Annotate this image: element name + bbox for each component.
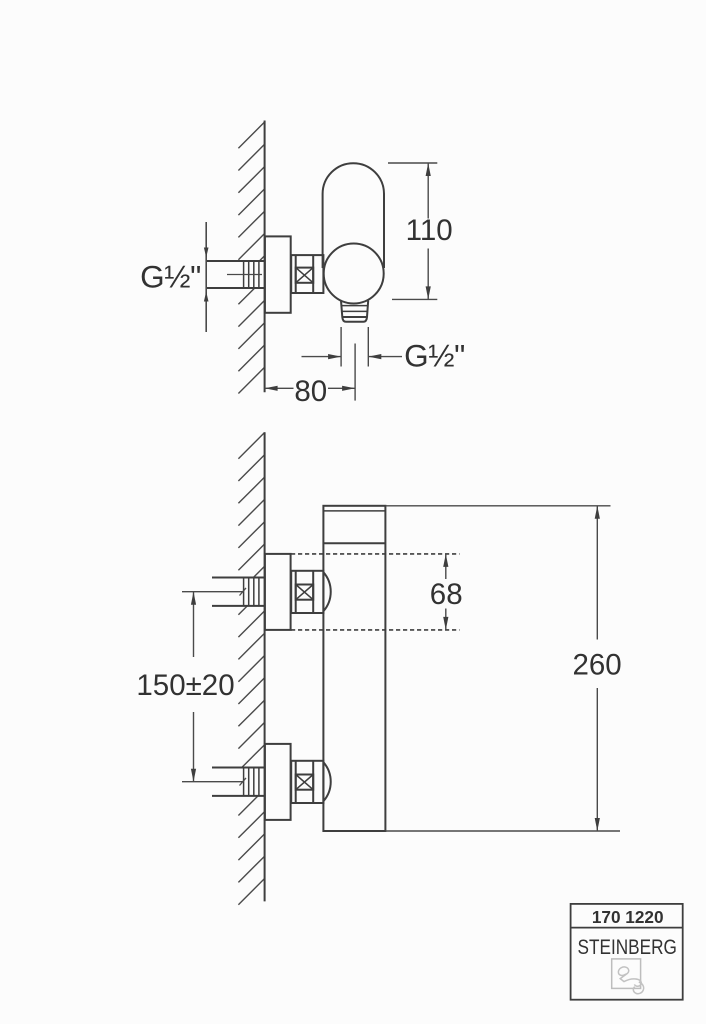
svg-text:150±20: 150±20 (136, 669, 234, 702)
wall hatching (bottom view) (238, 433, 264, 905)
dimension 150±20 (bottom view) (136, 592, 234, 782)
dimension 80 (top view) (265, 344, 356, 408)
dimension G1/2 left (top view) (140, 222, 208, 332)
supply pipe (top view) (206, 261, 264, 288)
wall hatching (top view) (238, 122, 264, 394)
body top cap lines (bottom view) (323, 510, 385, 512)
wall flange (top view) (265, 236, 291, 312)
union connector with valve cross (top view) (291, 255, 323, 293)
upper wall fitting (bottom view) (182, 554, 331, 630)
pipe centerline (top view) (227, 274, 262, 276)
wall line (bottom view) (264, 432, 266, 901)
dimension 68 (bottom view) (430, 554, 463, 630)
svg-text:260: 260 (572, 649, 621, 682)
dimension 260 (bottom view) (385, 506, 621, 831)
round handle circle (top view) (324, 244, 384, 304)
svg-text:G½": G½" (140, 259, 201, 295)
svg-text:80: 80 (294, 375, 327, 408)
dimension 110 (top view) (388, 163, 453, 299)
wall line (top view) (264, 121, 266, 393)
mixer body side profile (bottom view) (323, 506, 385, 831)
logo swirl (618, 967, 643, 994)
title block divider (571, 927, 683, 929)
dashed reference lines 68 (bottom view) (291, 553, 460, 555)
pipe thread lines (top view) (244, 261, 259, 288)
lower wall fitting (bottom view) (182, 744, 331, 820)
svg-text:110: 110 (406, 214, 453, 247)
svg-text:G½": G½" (404, 337, 465, 373)
mixer body capsule (top view) (323, 163, 384, 262)
title block box (571, 904, 683, 1000)
svg-text:68: 68 (430, 578, 463, 611)
logo square (612, 959, 641, 989)
dimension G1/2 bottom (top view) (302, 327, 465, 373)
svg-text:STEINBERG: STEINBERG (578, 935, 677, 959)
spout nozzle (top view) (341, 301, 368, 322)
svg-text:170 1220: 170 1220 (592, 907, 664, 927)
